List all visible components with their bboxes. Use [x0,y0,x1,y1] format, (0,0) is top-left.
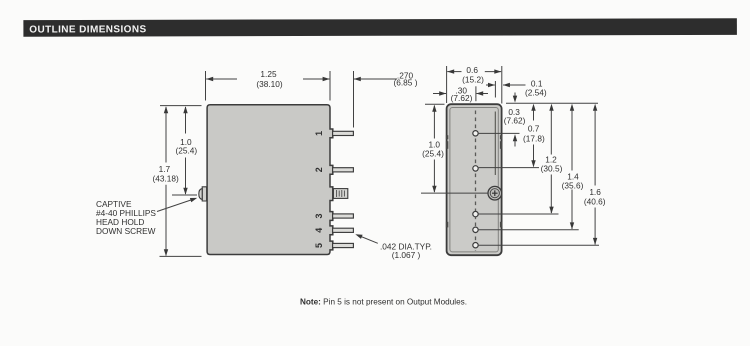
hole 3 [473,211,478,216]
pin 1 [333,131,354,135]
hole 5 [473,243,478,248]
svg-text:5: 5 [314,243,324,248]
hole 2 [473,166,478,171]
hole 5 extension line [479,244,599,246]
right view inner rib line [494,112,496,176]
svg-text:(43.18): (43.18) [152,173,179,183]
svg-text:3: 3 [314,213,324,218]
left view module body [207,105,333,255]
hole 4 [473,227,478,232]
edge slot marks left upper [446,135,448,149]
hole 3 extension line [479,213,559,215]
svg-text:DOWN SCREW: DOWN SCREW [96,226,156,236]
dimension 1.7 (43.18) body height [152,106,201,256]
svg-text:(15.2): (15.2) [462,74,484,84]
dimension 0.1 (2.54) screw to edge [486,79,547,98]
title banner OUTLINE DIMENSIONS [23,18,737,36]
dimension .270 (6.85) pin length [354,71,418,128]
dimension .30 (7.62) to centreline [433,86,488,103]
svg-text:(25.4): (25.4) [422,148,444,158]
screw head front view [488,186,502,200]
svg-text:2: 2 [314,167,324,172]
hold-down screw threaded stud (right side) [333,189,347,199]
dimension 1.6 (40.6) to hole 5 [584,104,606,245]
left vertical dims shared top extension line [160,105,202,107]
svg-text:(30.5): (30.5) [541,164,563,174]
leader to captive screw [157,196,198,212]
svg-text:1: 1 [314,131,324,136]
dimension 1.2 (30.5) to hole 3 [541,104,563,214]
edge slot mark right lower [500,222,502,228]
svg-text:1.25: 1.25 [260,69,277,79]
dimension 0.6 (15.2) width [447,65,502,104]
svg-text:(7.62): (7.62) [504,116,526,126]
svg-text:(2.54): (2.54) [525,88,547,98]
svg-text:4: 4 [314,228,324,233]
pin 3 [333,214,354,218]
svg-text:(38.10): (38.10) [256,79,283,89]
captive screw head (left side of body) [199,187,207,201]
hole 1 [473,131,478,136]
svg-text:1.6: 1.6 [589,187,601,197]
svg-text:0.6: 0.6 [466,65,478,75]
dimension 1.0 (25.4) to screw centre [172,106,197,195]
leader to pin 4 [354,232,377,243]
svg-text:(25.4): (25.4) [175,146,197,156]
right view module body [447,104,502,255]
pin 5 [333,243,354,247]
dashed centreline [475,111,477,252]
hole 1 extension line [479,132,520,134]
dimension 0.3 (7.62) to hole 1 [504,93,526,147]
dimension 1.0 (25.4) right view [422,105,444,193]
pin diameter note .042 DIA.TYP. [380,241,432,260]
edge slot mark left lower [446,222,448,228]
svg-text:(17.8): (17.8) [523,133,545,143]
top edge extension line right [506,102,598,104]
pin 2 [333,168,354,172]
svg-text:(40.6): (40.6) [584,197,606,207]
svg-text:0.7: 0.7 [528,124,540,134]
screw centre extension line [421,192,488,194]
svg-text:OUTLINE DIMENSIONS: OUTLINE DIMENSIONS [29,24,146,35]
svg-text:(7.62): (7.62) [451,93,473,103]
pin 4 [333,228,354,232]
right view inner outline [450,108,498,252]
top edge extension line left [425,103,445,105]
dimension 0.7 (17.8) to hole 2 [523,104,545,167]
edge slot marks right upper [500,135,502,149]
hole 4 extension line [479,229,579,231]
hole 2 extension line [479,167,539,169]
svg-text:(1.067 ): (1.067 ) [392,250,421,260]
dimension 1.25 (38.10) body width [206,69,331,100]
svg-text:(35.6): (35.6) [562,181,584,191]
captive screw note text [96,199,156,236]
svg-text:Note: Pin 5 is not present on: Note: Pin 5 is not present on Output Mod… [300,298,467,307]
dimension 1.4 (35.6) to hole 4 [562,104,584,230]
svg-text:(6.85 ): (6.85 ) [394,78,418,88]
